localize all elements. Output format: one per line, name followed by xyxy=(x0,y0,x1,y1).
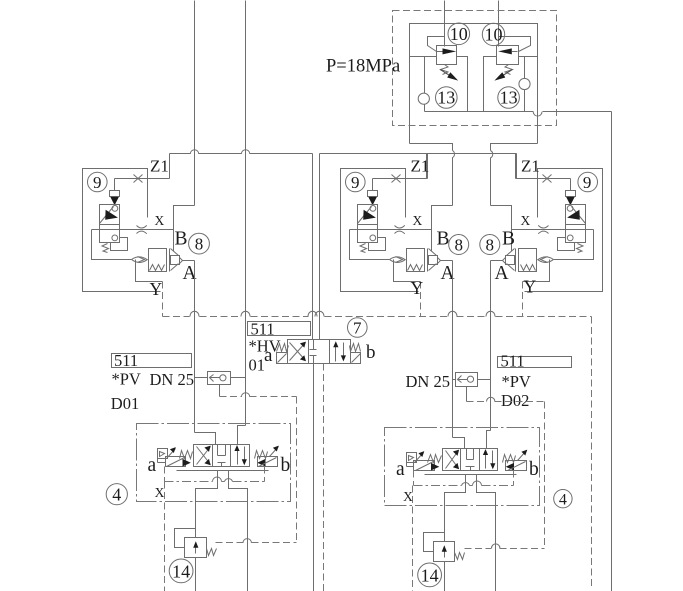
wire jump drain right over B bus xyxy=(492,544,500,548)
svg-text:a: a xyxy=(396,459,405,480)
svg-text:a: a xyxy=(148,455,157,476)
pilot valve 9 lower box xyxy=(358,225,378,243)
enclosure group box xyxy=(525,169,603,292)
svg-text:X: X xyxy=(521,213,531,228)
wire B staircase xyxy=(432,206,453,252)
wire middle A bus down xyxy=(452,261,454,438)
pilot valve 9 poppet triangle xyxy=(110,197,119,205)
wire jog from block to middle bus xyxy=(410,144,453,151)
valve 4 center position xyxy=(218,445,226,456)
solenoid b of valve 7 xyxy=(351,353,361,364)
flow arrow a side xyxy=(183,459,191,467)
wire X pilot dashes under valve xyxy=(164,467,166,482)
enclosure chain box around valve 4 xyxy=(137,424,291,502)
cartridge valve 8 poppet square xyxy=(506,256,515,265)
svg-text:b: b xyxy=(529,459,539,480)
wire valve 7 P drop xyxy=(313,364,315,591)
svg-text:14: 14 xyxy=(421,565,439,585)
enclosure group box xyxy=(83,169,161,292)
wire drain dashed left relief to remote xyxy=(216,542,244,544)
svg-text:10: 10 xyxy=(485,24,503,44)
flow arrow b side xyxy=(506,463,514,471)
svg-text:a: a xyxy=(264,345,273,366)
wire jump Z1 feed over bus P1 xyxy=(190,150,198,154)
pilot valve 9 spring xyxy=(360,244,367,253)
svg-text:13: 13 xyxy=(500,88,518,108)
balloon 13 left xyxy=(436,87,458,109)
spring b side xyxy=(503,455,516,463)
cartridge valve 8 poppet xyxy=(169,249,171,272)
wire remote control dashed right xyxy=(466,387,468,402)
wire relief 10 right outlet left side xyxy=(484,57,497,112)
pilot valve 9 top rect xyxy=(368,191,378,197)
balloon 14 xyxy=(169,559,193,583)
throttle on X line xyxy=(538,225,548,228)
nameplate 511 box right xyxy=(498,357,572,368)
pilot valve 9 lower ball xyxy=(370,235,376,241)
balloon 8 middle xyxy=(449,235,469,255)
svg-text:Y: Y xyxy=(150,279,163,299)
relief valve 10 right arrow xyxy=(498,48,512,54)
main valve assembly 4 left xyxy=(137,424,291,591)
wire Z1 feed right y=153.9 xyxy=(320,153,517,155)
wire orifice line right xyxy=(453,379,456,381)
svg-text:D01: D01 xyxy=(111,394,139,413)
pilot valve 9 diagonal xyxy=(100,207,114,224)
valve 7 left position crossed arrows xyxy=(290,343,306,361)
wire X line xyxy=(92,229,174,231)
wire A port line xyxy=(183,260,195,262)
svg-text:Z1: Z1 xyxy=(411,157,430,176)
svg-text:Z1: Z1 xyxy=(150,157,169,176)
relief valve 14 arrow xyxy=(444,550,446,558)
svg-text:DN 25: DN 25 xyxy=(406,372,450,391)
pilot valve 9 ball circle xyxy=(370,206,376,212)
relief valve 10 right body xyxy=(497,46,519,65)
wire pump line vertical x=444.2 into block xyxy=(444,1,446,47)
orifice cross on Z1 line xyxy=(543,175,552,183)
spring b side xyxy=(255,451,268,459)
balloon 13 right xyxy=(498,87,520,109)
svg-text:511: 511 xyxy=(114,351,138,370)
svg-text:Y: Y xyxy=(524,277,537,297)
relief valve 14 spring xyxy=(455,553,465,560)
orifice circle right xyxy=(467,376,473,382)
pilot valve 9 arrow xyxy=(363,210,376,220)
wire Y drain xyxy=(394,260,421,282)
wire jump on bottom rail over right edge xyxy=(533,112,542,116)
balloon 9 circle xyxy=(346,172,366,192)
cartridge valve 8 spring xyxy=(521,265,536,271)
enclosure dashed box around relief valves 10 xyxy=(393,11,557,126)
wire Z1 local line xyxy=(115,178,170,180)
pilot valve 9 stem xyxy=(372,179,374,191)
orifice arrow right xyxy=(458,376,468,383)
relief valve 10 left body xyxy=(437,46,457,65)
svg-text:14: 14 xyxy=(172,561,190,581)
cartridge valve 8 poppet square xyxy=(171,256,180,265)
valve 4 right parallel arrows xyxy=(485,452,487,469)
svg-text:8: 8 xyxy=(454,236,463,255)
wire Y drain xyxy=(523,260,550,282)
pilot valve 9 upper box xyxy=(100,205,120,225)
wire jump remote right over bus xyxy=(487,397,495,401)
relief valve 10 right adjust arrow xyxy=(501,70,512,77)
proportional valve 4 body xyxy=(194,445,250,467)
wire valve 7 T drop dashed xyxy=(323,364,325,591)
wire P2 bus vertical x=245.6 top xyxy=(245,1,247,426)
relief valve 10 right spring xyxy=(505,65,513,75)
proportional arrow b side xyxy=(270,447,279,457)
wire a pilot link xyxy=(406,463,408,467)
wire Z1 local line xyxy=(516,178,571,180)
wire pump line vertical x=498.6 into block xyxy=(498,1,500,47)
wire P jog into right valve 4 xyxy=(453,438,465,449)
orifice check box left xyxy=(208,372,231,385)
relief valve 14 pilot loop xyxy=(175,529,196,548)
relief valve 10 left adjust arrow xyxy=(440,70,451,77)
orifice circle left xyxy=(220,375,226,381)
wire Z1 drop to middle group xyxy=(426,154,428,179)
wire Z1 drop to right group xyxy=(516,154,518,179)
pilot reducer box a side xyxy=(407,453,417,463)
pilot valve 9 feedback loop xyxy=(111,238,128,251)
balloon 8 right xyxy=(480,235,500,255)
valve group 9/8 left xyxy=(83,154,195,317)
wire T line to right bus xyxy=(611,112,613,591)
relief valve 10 left arrow xyxy=(443,48,457,54)
svg-text:X: X xyxy=(413,213,423,228)
enclosure group box xyxy=(341,169,419,292)
svg-text:4: 4 xyxy=(559,491,567,508)
wire X pilot drop xyxy=(92,230,132,260)
wire Y manifold dashed xyxy=(163,316,190,318)
relief valve 14 spring xyxy=(207,549,217,556)
relief valve 10 left pilot line xyxy=(428,37,445,52)
valve group 9/8 middle xyxy=(341,154,453,317)
wire jog from block to right group bus xyxy=(491,144,538,151)
wire relief 10 left outlet right side xyxy=(457,57,468,112)
wire remote drop dashed left xyxy=(296,397,298,543)
wire jump right group bus crossing Z1 feed xyxy=(491,151,493,158)
cartridge valve 8 body xyxy=(519,249,537,272)
wire relief 10 right outlet right side xyxy=(519,56,538,58)
wire X pilot dashes under valve xyxy=(413,471,415,486)
pilot valve 9 spring xyxy=(577,244,584,253)
balloon 4 left xyxy=(106,484,127,505)
pilot valve 9 arrow xyxy=(567,210,580,220)
cartridge valve 8 poppet square xyxy=(429,256,438,265)
proportional arrow b side xyxy=(518,451,527,461)
orifice check box right xyxy=(456,373,478,387)
solenoid box a side xyxy=(166,457,186,467)
wire Y drain xyxy=(136,260,163,282)
svg-text:8: 8 xyxy=(195,235,204,254)
wire A port down xyxy=(196,471,218,538)
relief valve 14 arrow xyxy=(195,546,197,554)
orifice cross on Z1 line xyxy=(134,175,143,183)
pilot valve 9 top rect xyxy=(110,191,120,197)
pilot valve 9 spring xyxy=(102,244,109,253)
throttle on X line xyxy=(137,225,147,228)
svg-text:A: A xyxy=(495,263,509,284)
wire drain drop with gauge point left xyxy=(424,57,426,94)
pilot valve 9 upper box xyxy=(566,205,586,225)
svg-text:b: b xyxy=(366,342,376,363)
svg-text:D02: D02 xyxy=(501,391,529,410)
pilot valve 9 poppet triangle xyxy=(566,197,575,205)
cartridge valve 8 spring xyxy=(150,265,165,271)
wire valve 7 port A riser x=319.9 xyxy=(319,154,321,340)
cartridge valve 8 spring xyxy=(408,265,423,271)
manifold solid box top relief block xyxy=(410,24,538,144)
wire drain dashed right relief to remote xyxy=(465,548,492,550)
svg-text:7: 7 xyxy=(353,319,362,338)
balloon 8 left xyxy=(189,233,210,254)
orifice lens with arrow xyxy=(538,257,554,263)
pilot valve 9 lower box xyxy=(100,225,120,243)
relief valve 14 body xyxy=(185,538,207,558)
wire relief 14 outlet xyxy=(195,558,197,591)
valve 4 left crossed arrows xyxy=(197,447,211,465)
pilot valve 9 stem xyxy=(570,179,572,191)
pilot valve 9 poppet triangle xyxy=(368,197,377,205)
svg-text:B: B xyxy=(502,229,515,250)
valve 4 center position xyxy=(467,449,474,460)
solenoid box b side xyxy=(506,461,527,471)
pilot valve 9 feedback loop xyxy=(558,238,575,251)
balloon 9 circle xyxy=(578,172,598,192)
svg-text:X: X xyxy=(155,213,165,228)
orifice arrow left xyxy=(210,375,220,382)
svg-text:4: 4 xyxy=(112,484,121,504)
wire relief 10 left outlet left side xyxy=(410,56,437,58)
svg-text:511: 511 xyxy=(501,352,525,371)
pilot valve 9 ball circle xyxy=(567,206,573,212)
valve group 9/8 right mirrored xyxy=(491,154,603,317)
pilot valve 9 upper box xyxy=(358,205,378,225)
wire relief 14 outlet xyxy=(444,562,446,591)
wire B port down xyxy=(229,471,248,591)
nameplate 511 box left xyxy=(112,354,192,368)
wire X pilot drop xyxy=(554,230,594,260)
proportional arrow a side xyxy=(415,453,424,463)
pilot valve 9 stem xyxy=(114,179,116,191)
cartridge valve 8 poppet xyxy=(515,249,517,272)
pilot valve 9 lower box xyxy=(566,225,586,243)
wire X line xyxy=(350,229,432,231)
solenoid valve 7 body xyxy=(288,340,351,364)
wire X drop dashed to bottom xyxy=(412,486,414,591)
wire orifice line left xyxy=(195,377,208,379)
wire jump remote left over bus P2 xyxy=(241,393,249,397)
wire drop with gauge point right xyxy=(524,57,526,79)
balloon 9 circle xyxy=(88,172,108,192)
solenoid box a side xyxy=(414,461,435,471)
cartridge valve 8 body xyxy=(407,249,425,272)
wire T jog into right valve 4 xyxy=(487,431,491,449)
wire A port line xyxy=(491,260,503,262)
pilot valve 9 top rect xyxy=(566,191,576,197)
wire A port down xyxy=(445,475,466,542)
wire Y drain dashed drop xyxy=(522,282,524,317)
cartridge valve 8 body xyxy=(149,249,167,272)
svg-text:10: 10 xyxy=(450,24,468,44)
spring b of valve 7 xyxy=(350,344,361,352)
solenoid a of valve 7 xyxy=(277,353,288,364)
svg-text:8: 8 xyxy=(486,236,495,255)
svg-text:9: 9 xyxy=(583,173,592,192)
balloon 4 right xyxy=(554,490,572,508)
nameplate 511 box valve 7 xyxy=(248,322,311,336)
flow arrow a side xyxy=(431,463,439,471)
wire block bottom rail y=111.7 xyxy=(425,111,534,113)
pilot valve 9 lower ball xyxy=(567,235,573,241)
pilot valve 9 feedback loop xyxy=(369,238,386,251)
wire B staircase xyxy=(174,206,195,252)
pilot reducer box a side xyxy=(158,449,168,459)
pilot valve 9 diagonal xyxy=(572,207,586,224)
cartridge valve 8 poppet xyxy=(427,249,429,272)
svg-text:01: 01 xyxy=(249,356,266,375)
wire X line xyxy=(512,229,594,231)
valve 4 right parallel arrows xyxy=(237,448,239,465)
spring a side xyxy=(180,451,193,459)
svg-text:Z1: Z1 xyxy=(521,157,540,176)
relief valve 14 pilot loop xyxy=(424,533,445,552)
wire X drop dashed to bottom xyxy=(164,482,166,591)
wire Y drain dashed drop xyxy=(420,282,422,317)
proportional valve 4 body xyxy=(443,449,498,471)
wire remote control dashed left xyxy=(219,385,221,397)
wire remote drop dashed right xyxy=(544,402,546,549)
svg-text:X: X xyxy=(403,489,413,504)
valve 7 center position blocked ports xyxy=(310,340,317,350)
wire B port down xyxy=(477,475,496,591)
relief valve 10 right pilot line xyxy=(499,37,531,52)
valve 4 left crossed arrows xyxy=(446,451,459,469)
pilot valve 9 arrow xyxy=(105,210,118,220)
balloon 7 xyxy=(348,318,368,338)
balloon 10 left xyxy=(448,23,470,45)
svg-text:B: B xyxy=(175,229,188,250)
svg-text:X: X xyxy=(155,485,165,500)
wire right B bus down xyxy=(490,261,492,431)
valve 4 bottom rail double line xyxy=(177,470,269,472)
wire P jog into left valve 4 xyxy=(195,433,216,445)
wire jump middle bus crossing Z1 feed xyxy=(452,151,454,158)
orifice lens with arrow xyxy=(132,257,148,263)
balloon 10 right xyxy=(482,23,504,45)
gauge circle left xyxy=(418,93,429,104)
orifice cross on Z1 line xyxy=(392,175,401,183)
wire Y manifold right drop dashed xyxy=(591,317,593,588)
enclosure chain box around valve 4 xyxy=(385,428,540,506)
wire valve 7 port B riser x=312.9 xyxy=(312,154,314,340)
wire T jog into left valve 4 xyxy=(238,426,246,445)
spring a side xyxy=(428,455,442,463)
orifice lens with arrow xyxy=(390,257,406,263)
valve 4 bottom rail double line xyxy=(425,474,517,476)
svg-text:B: B xyxy=(437,229,450,250)
wire Y drain dashed drop xyxy=(162,282,164,317)
flow arrow b side xyxy=(257,459,265,467)
pilot valve 9 lower ball xyxy=(112,235,118,241)
svg-text:*PV: *PV xyxy=(502,372,531,391)
proportional arrow a side xyxy=(167,449,176,459)
svg-text:9: 9 xyxy=(351,173,360,192)
valve 7 right position parallel arrows xyxy=(335,344,337,362)
pilot valve 9 ball circle xyxy=(112,206,118,212)
relief valve 10 left spring xyxy=(441,65,449,75)
wire P1 bus vertical x=194.5 top xyxy=(194,1,196,206)
wire B staircase xyxy=(491,206,512,252)
solenoid box b side xyxy=(258,457,278,467)
wire Z1 feed left y=153.9 xyxy=(170,153,191,155)
svg-text:*PV: *PV xyxy=(112,370,141,389)
wire jump Z1 feed over bus P2 xyxy=(241,150,249,154)
main valve assembly 4 right xyxy=(385,428,540,591)
spring a of valve 7 xyxy=(277,344,289,352)
svg-text:P=18MPa: P=18MPa xyxy=(326,57,400,77)
svg-text:9: 9 xyxy=(93,173,102,192)
wire jump drain left over B bus xyxy=(243,539,251,543)
svg-text:Y: Y xyxy=(411,278,424,298)
relief valve 14 body xyxy=(434,542,455,562)
svg-text:13: 13 xyxy=(437,88,455,108)
balloon 14 xyxy=(418,563,442,587)
wire a pilot link xyxy=(157,459,159,463)
wire A port line xyxy=(441,260,453,262)
throttle on X line xyxy=(395,225,405,228)
svg-text:DN 25: DN 25 xyxy=(150,370,194,389)
gauge circle right xyxy=(519,78,530,89)
wire Z1 local line xyxy=(373,178,428,180)
svg-text:b: b xyxy=(281,455,291,476)
pilot valve 9 diagonal xyxy=(358,207,372,224)
wire Y manifold jumps over buses xyxy=(190,311,199,316)
wire X pilot drop xyxy=(350,230,390,260)
